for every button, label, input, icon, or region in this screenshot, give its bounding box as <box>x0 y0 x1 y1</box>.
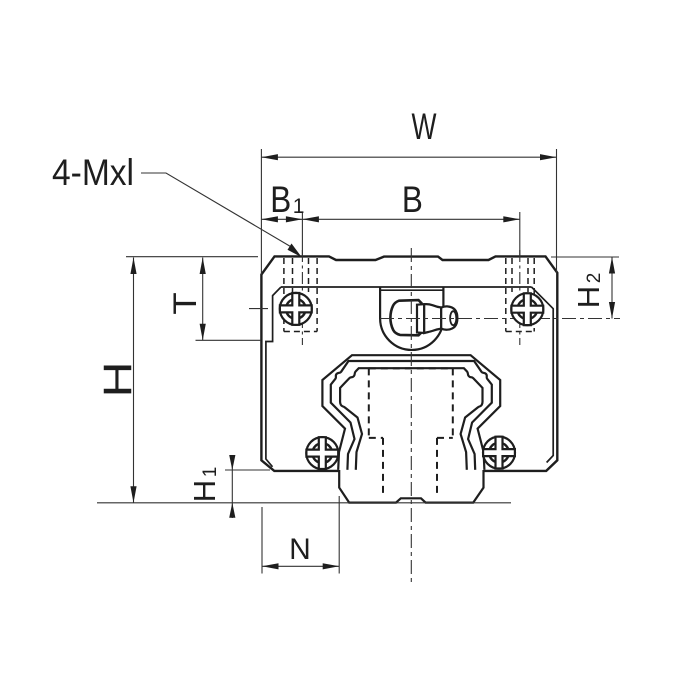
tapped hole right (dashed) <box>506 258 534 332</box>
end cap inner right edge <box>532 287 554 463</box>
label H2 <box>571 273 606 308</box>
dimension B line <box>302 212 519 258</box>
svg-text:B: B <box>402 179 423 220</box>
svg-text:2: 2 <box>584 273 605 284</box>
grease nipple ball (hex body) <box>390 300 421 335</box>
rail head (dashed hidden) <box>369 368 453 438</box>
tapped hole left (dashed) <box>284 258 317 332</box>
grease nipple tip <box>450 311 456 325</box>
nipple horizontal centerline <box>380 318 620 320</box>
end cap inner top line <box>281 286 532 288</box>
dimension H2 line <box>551 257 619 319</box>
svg-text:4-Mxl: 4-Mxl <box>52 152 134 193</box>
screw top-left <box>280 293 312 325</box>
grease nipple thread collar <box>417 304 424 333</box>
screw bottom-right <box>483 437 515 469</box>
seal outer contour <box>322 355 500 470</box>
dimension W line <box>261 149 556 275</box>
dimension N line <box>262 496 339 574</box>
end cap inner left edge <box>266 287 281 467</box>
grease nipple boss <box>380 287 443 350</box>
bottom seal lip part <box>339 470 483 503</box>
screw horizontal tick left <box>249 308 268 310</box>
leader 4-Mxl <box>141 173 293 248</box>
dimension H1 line <box>225 455 270 518</box>
screw centerline right <box>519 250 521 345</box>
block outer outline <box>261 256 557 471</box>
seal cavity contour <box>340 368 483 470</box>
grease nipple bell <box>424 304 441 333</box>
svg-text:H: H <box>95 361 140 397</box>
grease nipple tip cap <box>441 306 457 329</box>
svg-text:1: 1 <box>293 195 305 218</box>
screw centerline left <box>301 250 303 345</box>
svg-text:B: B <box>270 179 291 220</box>
svg-text:H: H <box>187 480 222 502</box>
label H1 <box>187 467 222 502</box>
dimension H line <box>97 257 511 503</box>
svg-text:N: N <box>289 533 311 566</box>
dimension T line <box>196 258 262 341</box>
svg-text:T: T <box>168 292 203 314</box>
screw top-right <box>511 293 543 325</box>
main vertical centerline <box>410 248 412 585</box>
svg-text:H: H <box>571 286 606 308</box>
svg-text:W: W <box>412 106 437 147</box>
dimension B1 line <box>261 218 302 220</box>
rail base sides (dashed hidden) <box>383 438 437 497</box>
grease nipple boss top edge <box>380 289 443 291</box>
seal middle contour <box>331 361 492 470</box>
svg-text:1: 1 <box>200 467 221 478</box>
screw bottom-left <box>306 437 338 469</box>
